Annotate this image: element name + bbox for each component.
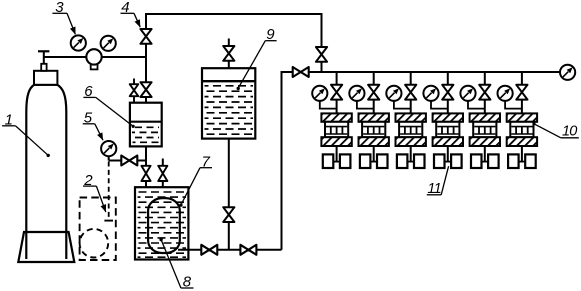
- ramp station 3: [386, 72, 426, 168]
- vessel 9: liquid dashes: [205, 86, 254, 134]
- ramp station 5: [460, 72, 500, 168]
- wire: vessel 6 bottom drop: [145, 146, 147, 166]
- gas cylinder 1: cap: [34, 71, 57, 85]
- label 2: [83, 172, 106, 212]
- regulator 3: outlet square: [91, 62, 98, 69]
- valve: riser valve to manifold: [316, 47, 327, 62]
- gas cylinder 1: body: [26, 85, 66, 259]
- gas cylinder 1: neck: [41, 64, 46, 71]
- ramp station 1: [312, 72, 352, 168]
- valve: saturator right valve: [158, 166, 167, 181]
- wire: riser valve to manifold: [321, 62, 323, 72]
- wire: right valve into vessel 7: [162, 181, 164, 199]
- wire: valve to vessel 6 top: [145, 97, 147, 103]
- wire: dashed line to humidifier: [108, 162, 110, 220]
- valve: vessel 6 vent valve: [130, 84, 139, 96]
- valve: manifold inlet valve: [293, 67, 309, 77]
- gas cylinder 1: base skirt: [18, 232, 74, 262]
- label 11: [427, 166, 449, 197]
- wire: cylinder to regulator pipe: [44, 56, 146, 58]
- label 3: [52, 0, 75, 34]
- wire: valve 4 down to vessel 6: [145, 43, 147, 82]
- wire: dashed line end tick: [104, 220, 113, 222]
- wire: manifold line: [282, 71, 560, 73]
- cylinder valve: T-handle bar: [38, 50, 49, 52]
- vessel 7: liquid dashes: [138, 192, 187, 257]
- valve: saturator left inlet valve: [141, 166, 150, 181]
- label 5: [83, 109, 103, 140]
- vessel 9: liquid level line: [202, 80, 255, 82]
- vessel 9: shell: [202, 68, 255, 138]
- wire: gauge 5 stem: [108, 156, 110, 160]
- wire: riser to manifold: [281, 71, 283, 250]
- cylinder valve: T-handle stem: [43, 51, 45, 64]
- regulator 3: body: [86, 49, 101, 64]
- wire: left valve into vessel 7: [145, 181, 147, 201]
- label 4: [121, 0, 141, 27]
- wire: vent valve to vessel 6 top: [133, 96, 135, 103]
- vessel 7: outer shell: [135, 187, 188, 259]
- humidifier 2: dashed box: [80, 198, 116, 261]
- valve: saturator right port stem: [162, 159, 164, 167]
- valve: vessel 9 drop valve: [223, 207, 234, 222]
- label 6: [83, 83, 134, 128]
- gauge 5: [101, 141, 116, 156]
- ramp station 2: [349, 72, 389, 168]
- regulator 3: left gauge: [71, 35, 86, 50]
- vessel 6: liquid level line: [130, 121, 162, 123]
- label 8: [159, 238, 193, 290]
- ramp station 6: [498, 72, 538, 168]
- wire: top line from valve 4 riser: [146, 14, 322, 57]
- wire: vessel 9 bottom drop: [228, 139, 230, 208]
- valve: gauge 5 branch valve: [121, 156, 137, 166]
- label 1: [2, 111, 50, 157]
- wire: gauge 5 branch line: [109, 160, 146, 162]
- vessel 6: shell: [130, 103, 162, 147]
- label 9: [237, 26, 277, 90]
- vessel 8: inner vessel: [148, 198, 180, 253]
- valve: vessel 9 top valve: [223, 46, 234, 61]
- label 7: [179, 153, 212, 207]
- regulator 3: right gauge: [101, 36, 116, 51]
- wire: bottom pipe from vessel 8: [178, 249, 282, 251]
- valve: bottom pipe left valve: [201, 245, 217, 255]
- valve: vessel 6 inlet valve: [140, 82, 151, 97]
- valve: vessel 6 vent valve stem: [133, 79, 135, 85]
- ramp station 4: [423, 72, 463, 168]
- vessel 6: liquid dashes: [132, 127, 160, 142]
- valve: bottom pipe right valve: [240, 245, 256, 255]
- humidifier 2: dashed circle: [80, 229, 109, 258]
- gauge: manifold end gauge: [560, 65, 575, 80]
- wire: valve to vessel 9: [228, 61, 230, 68]
- valve 4: [140, 29, 151, 44]
- label 10: [532, 122, 578, 139]
- wire: drop valve to bottom pipe: [228, 222, 230, 250]
- valve: vessel 9 vent stem: [228, 39, 230, 47]
